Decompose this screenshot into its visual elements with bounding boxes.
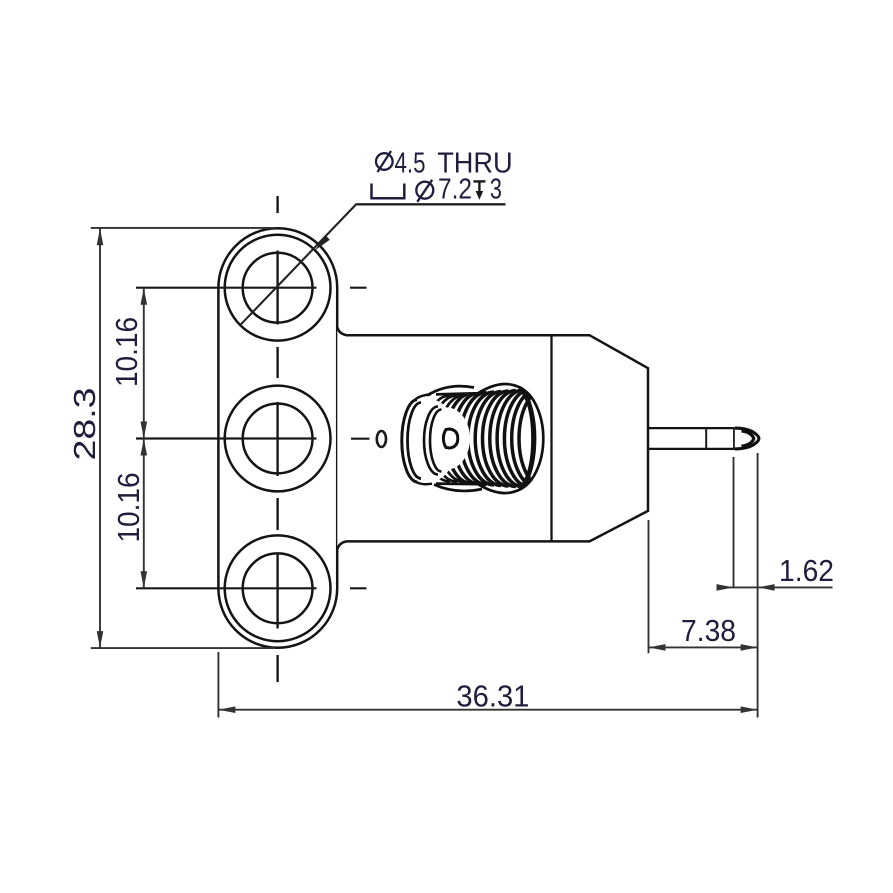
leader line to hole callout: [240, 204, 357, 326]
counterbore circle hole 2 (middle): [225, 386, 331, 492]
arrowhead 10.16 upper bottom: [141, 422, 148, 439]
body/hex separator line: [550, 335, 552, 541]
pin step tick: [705, 428, 707, 449]
dimension 7.38: [649, 520, 758, 653]
body outline: [337, 327, 648, 549]
opening inner arc: [430, 410, 442, 472]
dimension 10.16 upper: [143, 288, 145, 439]
front rim inner arc: [408, 403, 422, 479]
thread end cap dark arcs: [519, 390, 535, 487]
svg-text:3: 3: [490, 174, 502, 206]
thru circle hole 2 (middle): [243, 404, 313, 474]
opening outer arc: [424, 407, 438, 475]
rim bottom connector: [415, 481, 432, 484]
pin tip base line: [733, 428, 736, 450]
svg-text:7.38: 7.38: [681, 613, 736, 648]
arrowhead 7.38 left: [649, 644, 666, 651]
arrowhead 1.62 left: [717, 584, 734, 591]
thru circle hole 3 (bottom): [243, 553, 313, 623]
svg-text:7.2: 7.2: [438, 174, 472, 206]
svg-text:4.5: 4.5: [395, 147, 426, 179]
leader shelf: [357, 203, 506, 205]
horizontal centerline hole 2 (axis): [136, 437, 370, 439]
svg-text:10.16: 10.16: [111, 473, 146, 543]
thread crest arcs: [424, 389, 545, 489]
arrowhead 7.38 right: [741, 644, 758, 651]
dimension 36.31: [218, 453, 757, 718]
cavity floor: [424, 408, 470, 470]
horizontal centerline hole 1: [136, 287, 367, 289]
vertical centerline through holes: [276, 196, 278, 682]
arrowhead 10.16 lower top: [141, 439, 148, 456]
svg-text:36.31: 36.31: [456, 679, 529, 714]
horizontal centerline hole 3: [136, 587, 367, 589]
arrowhead 28.3 bottom: [97, 631, 104, 648]
pin tip dome: [735, 428, 759, 449]
svg-text:10.16: 10.16: [109, 317, 144, 387]
thread barrel silhouette: [433, 384, 543, 493]
dimension 10.16 lower: [143, 439, 145, 589]
counterbore circle hole 3 (bottom): [225, 535, 331, 641]
arrowhead 10.16 upper top: [141, 288, 148, 305]
dimension 28.3: [91, 228, 275, 648]
arrowhead 28.3 top: [97, 228, 104, 245]
arrowhead 36.31 right: [741, 706, 758, 713]
thru circle hole 1 (top): [243, 253, 313, 323]
svg-text:28.3: 28.3: [67, 388, 102, 461]
counterbore circle hole 1 (top): [225, 235, 331, 341]
thread helix bottom-left bump: [434, 485, 482, 491]
leader arrowhead: [315, 235, 330, 250]
callout diameter symbol line 1: [376, 151, 393, 172]
flange outline (stadium): [218, 228, 337, 647]
counterbore symbol: [372, 184, 405, 199]
front rim outer arc: [402, 400, 417, 483]
arrowhead 1.62 right: [758, 584, 775, 591]
rim top connector: [415, 394, 431, 400]
arrowhead 10.16 lower bottom: [141, 571, 148, 588]
arrowhead 36.31 left: [218, 706, 235, 713]
svg-text:1.62: 1.62: [779, 553, 834, 588]
center socket contact: [443, 429, 457, 448]
callout diameter symbol line 2: [416, 180, 433, 202]
connector front face: [401, 399, 458, 482]
small vent hole on body face: [377, 431, 386, 447]
depth symbol: [473, 181, 485, 192]
dimension 1.62: [718, 457, 833, 588]
pin top line: [648, 427, 735, 429]
pin tip inner arc: [742, 431, 754, 446]
pin bottom line: [648, 448, 735, 450]
thread helix top-left bump: [427, 386, 474, 395]
